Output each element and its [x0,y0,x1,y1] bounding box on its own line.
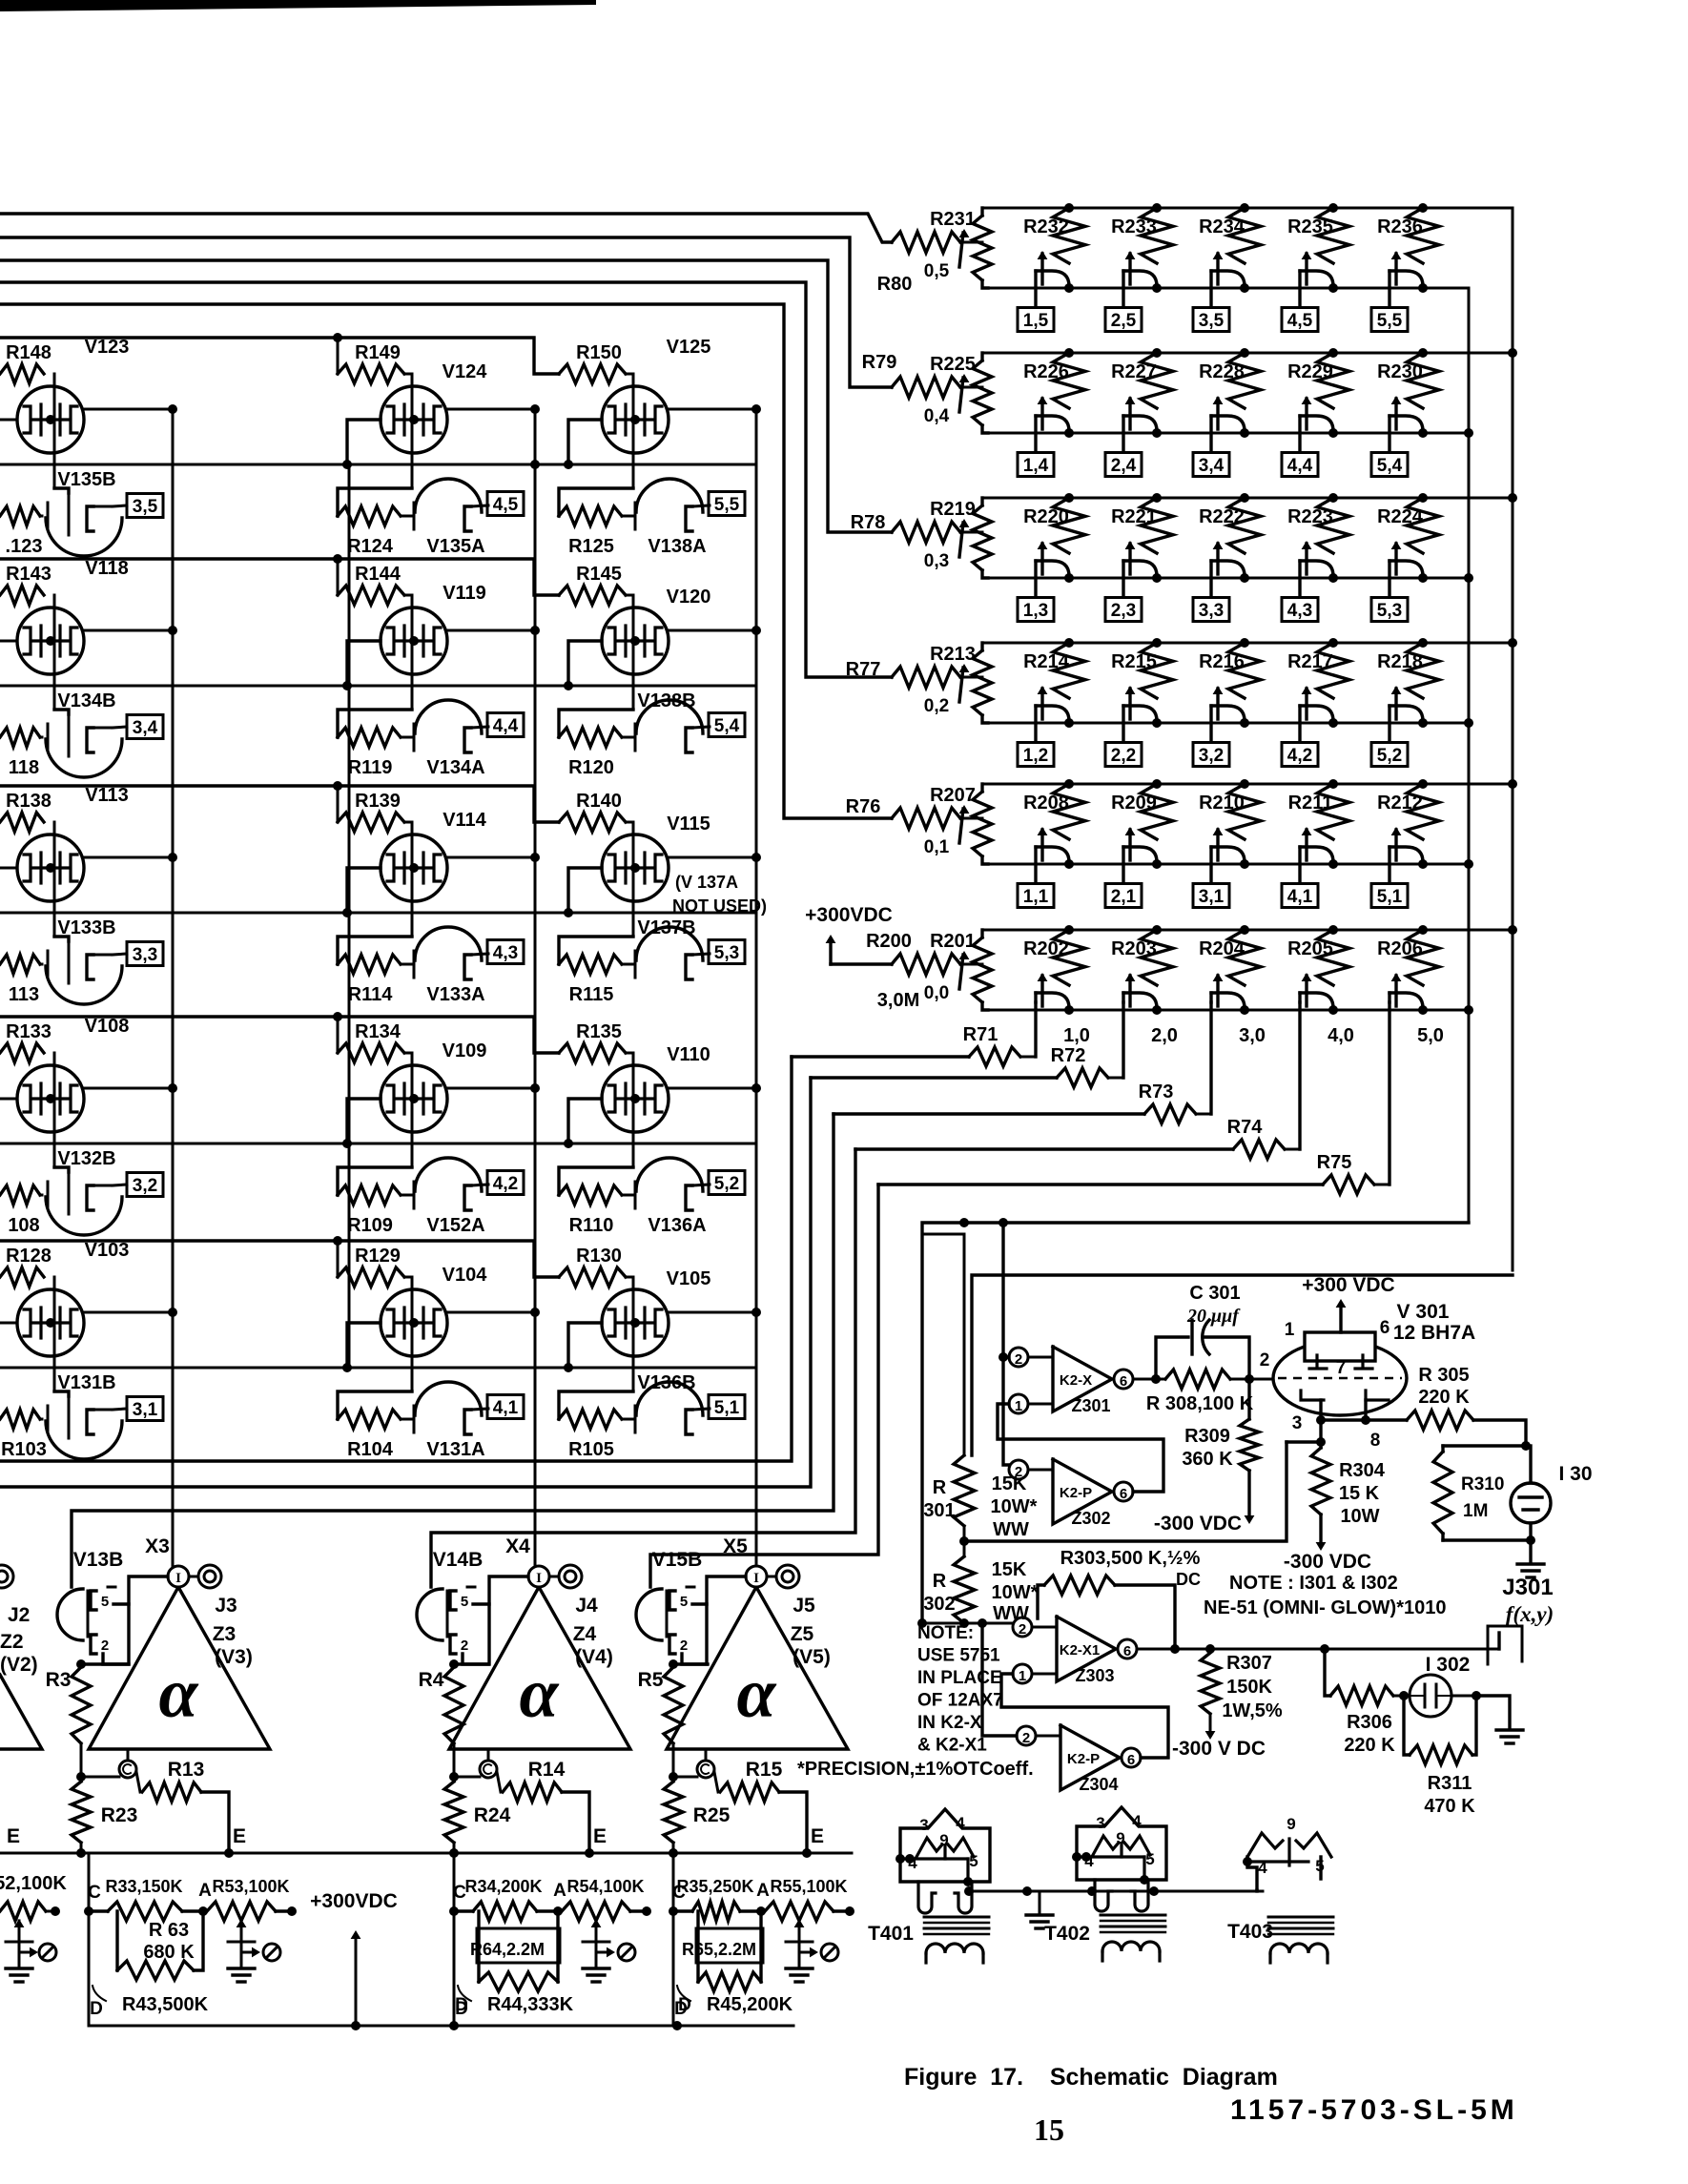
wire 1702 node line [922,1622,1013,1625]
svg-text:V135B: V135B [57,469,115,490]
svg-text:1,2: 1,2 [1023,746,1048,766]
potentiometer R207 [973,792,992,856]
potentiometer R206 [1418,925,1428,935]
svg-text:2,2: 2,2 [1111,746,1136,766]
node patch point 3,4 [1193,453,1229,477]
dual-triode half V136B [559,1391,633,1419]
wire row 3 grid bus lower [0,912,756,915]
wire wiper R210 to patch point [1209,847,1212,883]
svg-text:R71: R71 [963,1024,998,1045]
op-amp Z3 (V3) [89,1587,270,1749]
svg-text:10W*: 10W* [991,1496,1038,1517]
potentiometer R236 [1418,203,1428,213]
resistor R73 [1144,1104,1196,1123]
wire row 3 bottom bus [982,577,1469,580]
wire V110 plate lead [669,1087,756,1090]
svg-text:Z304: Z304 [1079,1775,1118,1794]
svg-text:2: 2 [1015,1464,1022,1480]
svg-text:0,0: 0,0 [924,983,949,1003]
dual-triode half V135B [0,506,40,525]
wire nest line b [0,1078,811,1487]
node patch 3,3 [127,942,163,966]
wire row 5 bottom bus [982,863,1469,866]
node patch 3,2 [127,1173,163,1197]
svg-text:5: 5 [680,1594,688,1610]
wire plate bus column 2 (to amp X4) [534,409,537,1566]
wire row 3 top bus [982,497,1513,500]
wire wiper R221 to patch point [1122,561,1124,597]
potentiometer R215 [1152,638,1162,648]
svg-text:R130: R130 [576,1246,622,1267]
wire transformer common [969,1890,1263,1893]
svg-text:R144: R144 [355,564,401,585]
svg-text:1,4: 1,4 [1023,456,1049,476]
pot wiper with phase symbol [595,1921,598,1955]
potentiometer R216 [1240,638,1249,648]
wire nest line d [431,1149,855,1587]
svg-text:0,3: 0,3 [924,551,949,571]
svg-text:I 302: I 302 [1426,1654,1471,1676]
wire row 4 top bus [982,642,1513,645]
node patch 4,2 [487,1171,524,1195]
wire C node column [88,1853,91,2026]
resistor R301 15K 10W WW [963,1234,966,1455]
wire R200 lead [831,962,892,965]
dual-triode half V132B [0,1185,40,1205]
svg-text:5,2: 5,2 [1377,746,1402,766]
op-amp Z301 (K2-X) [1053,1347,1112,1411]
svg-text:R77: R77 [846,659,881,680]
svg-text:R145: R145 [576,564,622,585]
resistor R134 [338,1043,404,1062]
wire wiper R206 down [1388,1002,1390,1185]
transformer T403 secondary coil [1270,1944,1328,1953]
svg-text:D: D [455,1995,468,2015]
svg-text:5,4: 5,4 [1377,456,1403,476]
wire top feed line 1 (to R80 row) [0,214,892,242]
triode V114 [411,822,414,937]
svg-text:3,4: 3,4 [1199,456,1225,476]
wire R15 to E bus [779,1792,807,1853]
pot wiper with phase symbol [240,1921,243,1955]
wire wiper R211 to patch point [1298,847,1301,883]
svg-text:1,1: 1,1 [1023,887,1049,907]
triode V119 [411,595,414,710]
wire V108 grid lead [0,1098,17,1101]
wire wiper R204 down [1209,1002,1212,1114]
wire R73 to left stair [834,1112,1144,1115]
resistor R35,250K [673,1909,692,1912]
wire row 2 grid bus lower [0,685,756,688]
wire V103 stem to half tube [54,1391,69,1396]
svg-text:R223: R223 [1287,506,1333,527]
resistor R145 [559,586,626,605]
triode V123 [53,374,56,488]
triode V109 [411,1053,414,1167]
node patch point 2,5 [1105,308,1142,332]
svg-text:(V3): (V3) [215,1646,253,1668]
wire row 6 bottom bus [982,1009,1469,1012]
resistor R307 150K 1W 5% [1201,1653,1220,1714]
svg-text:V118: V118 [85,558,129,579]
resistor R306 220K [1330,1686,1393,1705]
dual-triode half V134A [338,710,412,737]
wire Z303 output line to J301 [1137,1648,1499,1651]
svg-text:R236: R236 [1377,216,1423,237]
svg-text:R114: R114 [348,984,394,1005]
node patch point 5,1 [1371,884,1408,908]
svg-text:R224: R224 [1377,506,1424,527]
svg-text:R5: R5 [638,1669,664,1691]
wire wiper R233 to patch point [1122,271,1124,307]
triode V120 [632,595,635,710]
wire feed from matrix bus1 to R301 [972,1275,1513,1455]
svg-text:V138A: V138A [648,536,706,557]
svg-text:Figure 17. Schematic Diag: Figure 17. Schematic Diagram [904,2064,1278,2091]
svg-text:R233: R233 [1111,216,1157,237]
svg-text:R311: R311 [1428,1773,1472,1794]
svg-text:A: A [198,1881,212,1901]
svg-text:R24: R24 [474,1804,511,1826]
triode V105 [632,1277,635,1391]
svg-text:220 K: 220 K [1344,1735,1395,1756]
svg-text:R3: R3 [46,1669,72,1691]
svg-text:α: α [520,1655,560,1733]
svg-text:V 301: V 301 [1397,1301,1450,1323]
resistor R4 [444,1667,463,1743]
wire wiper R229 to patch point [1298,416,1301,452]
svg-text:R78: R78 [851,512,886,533]
svg-text:R133: R133 [6,1021,51,1042]
resistor R149 [338,364,404,383]
svg-text:7: 7 [1336,1358,1347,1378]
svg-text:R304: R304 [1339,1460,1386,1481]
wire top feed line 4 (to R77 row) [0,282,892,677]
svg-text:V137B: V137B [637,917,695,938]
node patch point 5,4 [1371,453,1408,477]
svg-text:R215: R215 [1111,651,1157,672]
svg-text:R44,333K: R44,333K [487,1994,574,2015]
svg-text:R210: R210 [1199,793,1245,814]
svg-text:5,1: 5,1 [1377,887,1403,907]
resistor R53,100K [207,1902,276,1921]
potentiometer R202 [1064,925,1074,935]
svg-text:2,4: 2,4 [1111,456,1137,476]
resistor R302 15K 10W WW [963,1526,966,1556]
wire wiper R220 to patch point [1034,561,1037,597]
dual-triode half V138B [559,710,633,737]
wire wiper R205 down [1298,1002,1301,1149]
dual-triode half V136A [559,1167,633,1195]
svg-text:3,3: 3,3 [1199,601,1224,621]
page-edge scan bar (decorative) [0,0,596,11]
resistor R143 [0,586,44,605]
svg-text:R310: R310 [1461,1474,1504,1494]
svg-text:3,5: 3,5 [133,497,158,517]
potentiometer R217 [1328,638,1338,648]
resistor R304 15K 10W [1311,1448,1330,1514]
svg-text:R307: R307 [1226,1653,1272,1674]
resistor R23 [72,1782,91,1843]
svg-text:K2-X: K2-X [1060,1372,1092,1389]
svg-text:+300VDC: +300VDC [805,904,893,926]
node Z301 input 2 [1009,1348,1028,1367]
transformer T402 secondary coil [1102,1942,1160,1951]
svg-text:J3: J3 [215,1595,237,1617]
op-amp Z2 fragment at page edge [0,1675,42,1749]
resistor R140 [559,813,626,832]
svg-text:5,5: 5,5 [714,495,740,515]
wire wiper R209 to patch point [1122,847,1124,883]
wire wiper R235 to patch point [1298,271,1301,307]
wire V119 grid lead [347,641,381,686]
svg-text:R115: R115 [569,984,614,1005]
svg-text:J5: J5 [793,1595,815,1617]
resistor R72 [1057,1068,1108,1087]
node grid pin circle [705,1749,708,1761]
wire wiper R228 to patch point [1209,416,1212,452]
svg-text:V104: V104 [443,1265,488,1286]
wire row 6 top bus [982,929,1513,932]
resistor R76 (series) [892,808,960,829]
resistor R311 470K [1404,1696,1410,1755]
svg-text:R43,500K: R43,500K [122,1994,209,2015]
resistor R15 [720,1782,779,1802]
potentiometer R213 [973,650,992,715]
svg-text:I: I [175,1571,181,1586]
wire V120 plate lead [669,629,756,632]
svg-text:118: 118 [9,757,39,778]
svg-text:R109: R109 [347,1215,393,1236]
capacitor C301 20uuf [1156,1337,1188,1379]
svg-text:2,1: 2,1 [1111,887,1137,907]
node patch point 5,5 [1371,308,1408,332]
svg-text:R209: R209 [1111,793,1157,814]
node patch 4,4 [487,713,524,737]
svg-text:5,3: 5,3 [714,943,739,963]
svg-text:R204: R204 [1199,938,1245,959]
svg-text:4,2: 4,2 [493,1174,518,1194]
svg-text:1,3: 1,3 [1023,601,1048,621]
resistor R 63&#160;&#160;680 K [115,1911,118,1970]
node patch 4,1 [487,1395,524,1419]
svg-text:2,5: 2,5 [1111,311,1137,331]
node Z302 output 6 [1114,1482,1133,1501]
svg-text:R206: R206 [1377,938,1423,959]
svg-text:(V5): (V5) [793,1646,831,1668]
potentiometer R219 [973,505,992,570]
wire V113 plate lead [84,856,173,859]
svg-text:R200: R200 [866,931,912,952]
triode V104 [411,1277,414,1391]
resistor R74 [1233,1140,1285,1159]
svg-text:10W: 10W [1340,1506,1379,1527]
resistor R5 [664,1667,683,1743]
resistor R24 [444,1782,463,1843]
svg-text:5,2: 5,2 [714,1174,739,1194]
svg-text:R201: R201 [930,931,976,952]
wire V120 grid lead [568,641,602,686]
resistor R54,100K [562,1902,630,1921]
node patch point 4,2 [1282,743,1318,767]
svg-text:3,4: 3,4 [133,718,158,738]
wire to R15 [673,1776,697,1779]
svg-text:K2-X1: K2-X1 [1060,1642,1101,1659]
svg-text:3: 3 [1292,1413,1303,1433]
wire nest line c [72,1114,834,1587]
svg-text:R216: R216 [1199,651,1245,672]
svg-text:V124: V124 [443,361,488,382]
svg-text:4,3: 4,3 [493,943,518,963]
wire row 1 bottom bus [982,287,1469,290]
wire V109 plate lead [447,1087,535,1090]
svg-text:2: 2 [1022,1730,1030,1746]
triode V108 [53,1053,56,1167]
svg-text:R 308,100 K: R 308,100 K [1146,1393,1254,1414]
wire row 4 bottom bus [982,722,1469,725]
svg-text:1,0: 1,0 [1063,1025,1090,1046]
svg-text:-300 V DC: -300 V DC [1172,1738,1266,1760]
svg-text:R138: R138 [6,791,51,812]
wire V115 grid lead [568,868,602,913]
dual-triode half V133A [338,937,412,964]
node patch point 3,5 [1193,308,1229,332]
wire bridge [922,1233,964,1236]
resistor R135 [559,1043,626,1062]
svg-text:V136B: V136B [637,1372,695,1393]
svg-text:R220: R220 [1023,506,1069,527]
potentiometer R235 [1328,203,1338,213]
op-amp Z302 (K2-P) [1053,1459,1112,1524]
wire wiper R232 to patch point [1034,271,1037,307]
svg-text:V135A: V135A [426,536,484,557]
node patch point 3,1 [1193,884,1229,908]
svg-text:10W*: 10W* [992,1582,1039,1603]
node X3 [168,1566,189,1587]
svg-text:R79: R79 [862,352,897,373]
resistor R55,100K [765,1902,834,1921]
node patch point 2,3 [1105,598,1142,622]
svg-text:R25: R25 [693,1804,731,1826]
node patch 5,5 [709,492,745,516]
potentiometer R226 [1064,348,1074,358]
svg-text:R306: R306 [1347,1712,1392,1733]
pot wiper with phase symbol (R52) [18,1921,21,1955]
svg-text:R207: R207 [930,785,976,806]
wire wiper R208 to patch point [1034,847,1037,883]
wire to Z304 input 2 [982,1623,1017,1736]
svg-text:V125: V125 [667,337,711,358]
wire C node column [453,1853,456,2026]
dual-triode half V133B [0,955,40,974]
svg-text:4,1: 4,1 [493,1398,519,1418]
svg-text:R104: R104 [347,1439,394,1460]
svg-text:52,100K: 52,100K [0,1873,67,1894]
svg-text:4,5: 4,5 [1287,311,1313,331]
wire V118 plate lead [84,629,173,632]
op-amp Z4 (V4) [449,1587,630,1749]
svg-text:6: 6 [1120,1373,1127,1390]
svg-text:C 301: C 301 [1189,1283,1240,1304]
svg-text:WW: WW [993,1519,1029,1540]
wire V104 grid lead [347,1323,381,1368]
wire V108 plate lead [84,1087,173,1090]
svg-text:V15B: V15B [652,1549,703,1571]
svg-text:R211: R211 [1288,793,1333,814]
wire wiper R226 to patch point [1034,416,1037,452]
wire wiper R234 to patch point [1209,271,1212,307]
svg-text:3,3: 3,3 [133,945,157,965]
svg-text:Z3: Z3 [213,1623,237,1645]
wire V118 grid lead [0,640,17,643]
wire top feed line 3 (to R78 row) [0,260,892,532]
svg-text:R202: R202 [1023,938,1069,959]
node J5 jack [767,1576,776,1578]
svg-text:T402: T402 [1044,1923,1090,1945]
triode V125 [632,374,635,488]
svg-text:+300VDC: +300VDC [310,1890,398,1912]
node patch 5,2 [709,1171,745,1195]
wire row 2 top bus [982,352,1513,355]
wire V103 grid lead [0,1322,17,1325]
resistor R128 [0,1267,44,1287]
svg-text:V138B: V138B [637,690,695,711]
resistor R130 [559,1267,626,1287]
svg-text:R124: R124 [347,536,394,557]
resistor R129 [338,1267,404,1287]
wire nest line a [0,1057,792,1461]
svg-text:R303,500 K,½%: R303,500 K,½% [1060,1548,1201,1569]
svg-text:X3: X3 [145,1535,170,1557]
svg-text:R73: R73 [1139,1082,1174,1102]
potentiometer R228 [1240,348,1249,358]
svg-text:20 μμf: 20 μμf [1186,1306,1241,1327]
svg-text:V119: V119 [443,583,486,604]
node patch 4,5 [487,492,524,516]
potentiometer R232 [1064,203,1074,213]
potentiometer R208 [1064,779,1074,789]
potentiometer R209 [1152,779,1162,789]
svg-text:4,1: 4,1 [1287,887,1313,907]
resistor R3 [72,1667,91,1743]
wire R75 to left stair [878,1183,1323,1185]
svg-text:R33,150K: R33,150K [105,1877,182,1896]
wire row 1 top bus [982,207,1513,210]
svg-text:R229: R229 [1287,361,1333,382]
svg-text:V114: V114 [443,810,486,831]
node patch 3,4 [127,715,163,739]
svg-text:R55,100K: R55,100K [770,1877,847,1896]
svg-text:I: I [536,1571,542,1586]
svg-text:R105: R105 [568,1439,614,1460]
svg-text:R120: R120 [568,757,614,778]
svg-text:-300 VDC: -300 VDC [1284,1551,1371,1573]
transformer T402 [1077,1807,1166,1880]
tube V301 12BH7A [1273,1341,1407,1415]
wire right bus 1 (row tops) [1512,208,1514,1270]
svg-text:3: 3 [1096,1814,1104,1832]
svg-text:680 K: 680 K [143,1942,195,1963]
potentiometer R221 [1152,493,1162,503]
node patch 4,3 [487,940,524,964]
svg-text:OF 12AX7: OF 12AX7 [917,1691,1003,1711]
svg-text:V109: V109 [443,1040,487,1061]
dual-triode half V137B [559,937,633,964]
wire R74 to left stair [855,1147,1233,1150]
resistor R65,2.2M [696,1911,699,1982]
svg-text:R65,2.2M: R65,2.2M [682,1940,756,1959]
svg-text:R13: R13 [168,1759,205,1781]
